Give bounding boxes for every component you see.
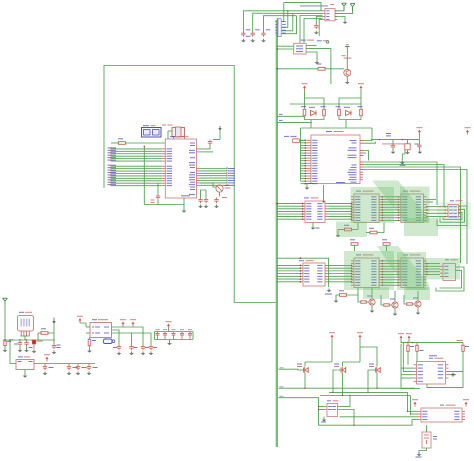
power flag <box>412 399 418 400</box>
ground <box>407 151 409 153</box>
connector U13 <box>448 205 459 218</box>
ground <box>371 309 373 311</box>
U4 right pins group1 <box>360 140 364 142</box>
power +5V arrow <box>357 332 363 333</box>
ground <box>183 209 185 211</box>
wire U1 bottom ground <box>158 200 184 205</box>
capacitor bank C19-C23 <box>157 332 159 334</box>
capacitor C1 <box>53 344 55 346</box>
U1 bottom inner label <box>181 195 190 196</box>
ground <box>77 372 79 374</box>
wire collector to flag <box>346 50 348 70</box>
power +5V arrow far right <box>465 127 471 128</box>
label U14 <box>299 260 304 261</box>
label MAX PWR red <box>382 143 411 144</box>
power flag <box>398 333 404 334</box>
wire U4 left pin connections <box>301 139 306 141</box>
ground <box>26 346 28 348</box>
shift register U15 <box>354 258 379 288</box>
wire U5 bottom to ground <box>306 52 317 61</box>
highlight patch row2 rect B <box>344 251 394 290</box>
capacitor C6 <box>200 198 202 200</box>
U4 right pins group3 long nets to shift rows <box>360 161 364 163</box>
highlight patch row2 diagonal <box>377 246 429 290</box>
resistor R16 <box>416 345 418 351</box>
diode D4 <box>311 111 317 116</box>
capacitor C16 <box>131 345 133 347</box>
U1 left pins upper bundle <box>162 148 165 150</box>
regulator ground pin <box>24 370 26 375</box>
transistor Q2 <box>369 299 375 305</box>
label U4 <box>326 131 332 132</box>
power flag down arrow right of U1 <box>218 128 221 131</box>
power +5V arrow <box>358 83 364 84</box>
wire U15 to U16 <box>382 260 398 262</box>
capacitor C27 <box>315 24 317 26</box>
wire base net <box>277 68 318 70</box>
ground below U10 <box>312 223 314 227</box>
capacitor C14 <box>88 365 90 367</box>
crystal Y2 <box>422 432 431 448</box>
capacitor C7 <box>205 198 207 200</box>
wire r12 r13 stubs <box>354 245 356 251</box>
antenna power flag <box>4 301 6 305</box>
highlight patch row1 rect B <box>351 187 395 223</box>
wire U16 right nets <box>427 263 441 265</box>
capacitor C28 <box>392 140 394 145</box>
wire U5 right long vertical <box>306 49 331 84</box>
shift register U11 <box>354 194 379 223</box>
capacitor C2 <box>44 365 46 367</box>
mosfet T1 <box>301 369 304 371</box>
shift register U12 <box>401 194 424 223</box>
ground <box>263 39 265 41</box>
ground <box>346 81 348 83</box>
resistor R17 <box>462 345 464 351</box>
highlight patch row1 diagonal <box>372 181 429 224</box>
wire U7 left low pins <box>316 17 322 25</box>
capacitor C9 <box>252 31 254 33</box>
net flag stubs on bus <box>280 367 284 368</box>
shift register U16 <box>401 258 424 288</box>
U1 inner right text <box>190 143 195 144</box>
wire U5 right net to flag <box>306 44 316 46</box>
U1 left pins lower bundle <box>162 165 165 167</box>
microcontroller U4 <box>311 135 360 184</box>
junction dots U14 <box>300 265 302 267</box>
wire U8 left verticals <box>400 344 402 389</box>
power flag down arrow <box>52 321 55 324</box>
diode D5 <box>346 111 352 116</box>
wire top net y15.7 <box>264 16 297 32</box>
highlight patch row1 lower right <box>404 218 438 236</box>
wire bus to U10 pins <box>277 203 302 205</box>
small IC U6 <box>327 404 338 417</box>
junction dots power rail <box>4 339 6 341</box>
wire pin1 feed <box>284 3 321 11</box>
power +5V arrow <box>44 354 50 355</box>
resistor R2 <box>119 142 126 145</box>
wire led block bottoms <box>305 117 325 120</box>
wire long net y392 <box>329 391 408 393</box>
ground <box>4 346 6 349</box>
wire U6 pins <box>319 406 325 408</box>
wire crystal legs <box>173 137 175 139</box>
connector U17 <box>443 264 456 281</box>
resistor R13 top <box>383 243 390 246</box>
junction cross <box>451 374 455 376</box>
label U7 <box>300 5 328 6</box>
resistor R9 <box>360 109 363 116</box>
resistor R8 <box>338 109 341 116</box>
mosfet T3 <box>373 369 376 371</box>
wire main power rail <box>3 339 55 341</box>
wire buzzer nets <box>200 183 216 187</box>
ground <box>252 39 254 41</box>
U1 right pins upper <box>197 148 200 150</box>
power +BATT arrow <box>77 316 83 317</box>
resistor R14 <box>340 294 347 297</box>
ground <box>392 150 394 152</box>
U4 bottom pin and ground <box>306 184 308 187</box>
wire top net y2.6 <box>283 3 285 22</box>
wire main vertical bus line A <box>275 20 277 447</box>
capacitor C8 <box>242 31 244 33</box>
crystal Y1 <box>172 128 185 137</box>
wire U8 top rail <box>401 341 464 343</box>
ground below-right U14 <box>328 289 330 291</box>
capacitor C12 <box>26 341 28 343</box>
capacitor C17 <box>142 345 144 347</box>
power +5V arrow bank <box>166 321 172 322</box>
wire gate net T1 <box>278 368 300 371</box>
wire charger left pins <box>86 326 90 328</box>
wire U5 left nets <box>277 45 293 47</box>
label U6 <box>327 400 331 401</box>
wire lower gnd branch <box>402 150 405 161</box>
power rail net y139.6 <box>371 139 419 141</box>
transistor Q4 <box>415 301 421 307</box>
label U17 <box>445 259 449 260</box>
label U8 <box>429 358 433 359</box>
label C16 blue <box>386 133 391 134</box>
wire cap stubs <box>44 364 46 365</box>
ground <box>216 205 218 207</box>
wire input <box>4 305 6 340</box>
wire regulator output rail <box>34 363 95 365</box>
wire bus to U14 pins <box>277 264 299 266</box>
ground <box>200 205 202 207</box>
ground <box>419 150 421 152</box>
wire r1 net <box>38 332 41 334</box>
mosfet T2 <box>338 369 341 371</box>
ground <box>418 453 420 455</box>
resistor R5 <box>318 67 325 70</box>
wire emitter <box>346 76 348 80</box>
transistor Q3 <box>392 302 398 308</box>
connector X1 USB power <box>18 316 34 332</box>
battery connector J2 <box>104 339 113 344</box>
wire main vertical bus line B <box>276 18 278 447</box>
ground <box>344 20 346 22</box>
wire fet supply rails <box>331 340 333 363</box>
wire Y2 nets <box>426 425 428 432</box>
U1 right pins bundle to labels <box>197 168 200 170</box>
label U5 <box>301 40 306 41</box>
ground <box>131 352 133 354</box>
label U15 <box>356 254 361 255</box>
highlight patch row1 right connector <box>437 202 471 229</box>
resistor R3 <box>88 339 91 346</box>
highlight patch row1 rect C <box>400 187 430 223</box>
shift register U10 <box>305 201 325 223</box>
wire U7 low pins <box>300 16 323 44</box>
power +5V arrow <box>329 332 335 333</box>
switch S1 reset <box>293 139 300 143</box>
label U1 <box>170 136 175 137</box>
label TP blue <box>415 144 419 145</box>
eeprom U9 <box>421 408 462 422</box>
wire led block rails <box>304 91 306 109</box>
resistor R10 <box>345 228 352 231</box>
ground below U6 <box>323 417 325 419</box>
ground <box>88 372 90 374</box>
resistor R6 <box>303 109 306 116</box>
wire top net y10.8 <box>243 11 322 32</box>
U4 right bottom stubs <box>360 171 363 173</box>
label U11 <box>356 191 361 192</box>
capacitor C5 <box>209 140 211 142</box>
wire r2 net <box>111 142 119 144</box>
label right of U8 <box>457 340 463 341</box>
ground <box>142 352 144 354</box>
usb connector U7 <box>325 9 335 21</box>
capacitor C4 bottom left of U1 <box>157 194 159 196</box>
label U9 <box>440 405 444 406</box>
wire branch to bottom ground <box>144 146 158 204</box>
ground <box>118 352 120 354</box>
wire big loop from PIC section to bus <box>104 66 276 303</box>
highlight patch row2 lower <box>363 287 389 299</box>
ic tiny U18 <box>405 144 410 150</box>
highlight patch row1 lower left <box>336 222 367 238</box>
rs232 driver U8 <box>417 362 446 385</box>
highlight patch row2 right connector <box>424 258 460 280</box>
ground <box>89 349 91 351</box>
wire top net y13 <box>253 13 323 32</box>
highlight patch row2 lower right <box>404 287 430 300</box>
U4 inner right text block <box>350 140 357 141</box>
label Q1 <box>342 55 346 56</box>
decoupling bank rails <box>155 331 194 333</box>
ground bank <box>169 340 171 342</box>
wire X1 pins to rail <box>20 331 22 336</box>
microcontroller U1 PIC <box>165 139 196 198</box>
ground <box>417 311 419 313</box>
ground <box>316 61 318 63</box>
capacitor C15 <box>118 345 120 347</box>
ground <box>337 234 339 236</box>
power +5V arrow <box>416 127 422 128</box>
capacitor C26 <box>216 198 218 200</box>
wire U7 right nets <box>335 8 344 11</box>
wire U10 to U11 <box>328 203 351 205</box>
LED1 power led <box>32 340 36 344</box>
capacitor C10 <box>263 31 265 33</box>
label U10 <box>304 197 309 198</box>
resistor R20 base <box>407 303 413 305</box>
voltage regulator IC1 7805 <box>16 360 34 370</box>
net flag collector <box>345 46 350 48</box>
wire regulator input <box>10 340 16 364</box>
wire row2 bottom nets <box>347 288 358 296</box>
capacitor C18 <box>150 345 152 347</box>
optocoupler U5 <box>294 43 306 54</box>
power +BATT arrow 2 <box>120 319 126 320</box>
capacitor C13 <box>77 365 79 367</box>
ground <box>335 299 337 301</box>
wire bus stub y397 to U6 loop <box>278 398 412 426</box>
polyfuse F1 <box>4 341 6 346</box>
ground <box>33 350 35 352</box>
wire r10 net <box>338 229 345 231</box>
resistor R19 base <box>384 304 390 306</box>
ground <box>53 351 55 353</box>
resistor R15 <box>407 345 409 351</box>
resistor R7 <box>323 109 326 116</box>
ground <box>401 161 403 163</box>
wire charger right nets <box>112 326 124 329</box>
wire U9 left nets <box>408 410 419 412</box>
resistor R12 top <box>351 243 358 246</box>
wire r11 net <box>366 232 370 234</box>
ground <box>242 39 244 41</box>
wire U14 to U15 <box>328 264 351 266</box>
wire U10 top right to VPWR <box>323 185 325 201</box>
resistor R1 <box>41 332 48 335</box>
ground <box>315 31 317 33</box>
ground <box>150 352 152 354</box>
power arrow 3 <box>130 319 136 320</box>
label U12 <box>403 191 408 192</box>
power +5V arrow <box>302 83 308 84</box>
ground <box>205 205 207 207</box>
shift register U14 <box>303 263 325 286</box>
wire U8 right nets <box>449 351 464 371</box>
label U16 <box>403 254 408 255</box>
wire long net y395 <box>320 395 411 397</box>
ground <box>19 346 21 348</box>
capacitor C3 <box>68 365 70 367</box>
wire U13 right loops <box>437 206 467 226</box>
buzzer LS1 <box>216 185 223 192</box>
power flag <box>406 333 412 334</box>
wire U12 right nets to U13 <box>427 206 446 208</box>
capacitor C11 <box>19 341 21 343</box>
power flag <box>463 399 469 400</box>
battery charger U2 <box>90 323 112 338</box>
net labels GND VPWR <box>306 183 313 184</box>
wire U4 left trunk <box>300 128 302 181</box>
ground <box>44 372 46 374</box>
capacitor C29 <box>418 140 420 145</box>
antenna ANT2 <box>352 7 354 11</box>
resistor R11 <box>370 231 377 234</box>
transistor Q1 <box>344 69 351 76</box>
wire U14 wrap top net <box>277 258 328 287</box>
U4 right pins group2 <box>360 150 364 152</box>
ground <box>394 312 396 314</box>
wire U11 to U12 <box>382 196 398 198</box>
label U13 <box>450 200 454 201</box>
resistor R18 base <box>361 301 367 303</box>
highlight patch row2 rect C <box>397 252 426 290</box>
connector ICSP display <box>142 128 162 138</box>
wire U17 right loops <box>436 267 464 291</box>
antenna ANT1 <box>343 6 345 10</box>
connector SV1 programming header <box>278 19 281 37</box>
ground <box>68 372 70 374</box>
junction dots U10 <box>302 203 304 205</box>
wire long net y388 <box>278 387 415 389</box>
